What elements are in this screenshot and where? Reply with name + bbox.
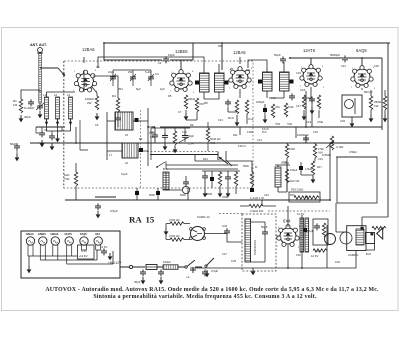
fuse <box>146 265 157 270</box>
svg-text:15: 15 <box>146 215 155 225</box>
resistor V3 screen <box>245 100 248 114</box>
resistor vibrator b 2700 <box>170 238 184 241</box>
capacitor 50pF left <box>14 143 20 150</box>
svg-text:C19: C19 <box>306 120 312 124</box>
svg-text:C18: C18 <box>313 130 318 134</box>
svg-text:10pF: 10pF <box>108 70 114 74</box>
resistor V5 cathode 250 <box>369 96 372 110</box>
cluster V4 resistor a <box>302 95 305 109</box>
wire top B+ bus y=43 <box>104 42 390 44</box>
driver coil <box>275 167 281 187</box>
wire V1 cathode <box>92 87 97 96</box>
svg-text:R11: R11 <box>233 133 238 137</box>
wire chassis line y=200 <box>65 199 330 201</box>
resistor 0,5M AF <box>285 144 288 158</box>
svg-text:47k: 47k <box>275 105 280 109</box>
tube V6 6X4 <box>277 225 299 247</box>
trimmer capacitor row c <box>148 74 154 81</box>
svg-text:500 pF: 500 pF <box>364 90 373 94</box>
svg-text:0,1μF: 0,1μF <box>121 172 128 176</box>
svg-text:C8: C8 <box>152 125 156 129</box>
scattered value labels <box>121 61 379 264</box>
svg-text:1W: 1W <box>374 104 379 108</box>
ground coils <box>55 135 60 142</box>
svg-text:C14: C14 <box>257 138 262 142</box>
wire grid drop x=104 <box>104 43 162 60</box>
wire trimmer row <box>113 70 151 86</box>
svg-text:0,25: 0,25 <box>231 259 237 263</box>
capacitor C1 <box>28 99 34 106</box>
AF cluster resistor a <box>218 172 221 186</box>
power transformer dashed box <box>242 214 276 271</box>
resistor dropping 2,5k horizontal <box>249 204 263 207</box>
wires output <box>330 203 388 268</box>
resistor screen V1 <box>116 98 119 112</box>
svg-text:40pF: 40pF <box>24 115 31 119</box>
hash filter coil above vibrator <box>163 172 169 190</box>
tube V5 6AQ5 <box>351 66 373 88</box>
svg-text:½W: ½W <box>318 150 323 154</box>
svg-text:ANT. AUT.: ANT. AUT. <box>30 43 47 47</box>
svg-text:B.A.: B.A. <box>163 167 169 171</box>
capacitor feed c 0,5uF <box>202 269 208 276</box>
svg-text:R5: R5 <box>168 94 172 98</box>
tube V4 12AT6 <box>300 65 322 87</box>
tube V3 12BA6 <box>229 67 251 89</box>
svg-text:5000pF: 5000pF <box>330 53 340 57</box>
svg-text:C4: C4 <box>158 61 162 65</box>
svg-text:8,2kΩ ½W: 8,2kΩ ½W <box>287 179 300 183</box>
svg-text:5000: 5000 <box>180 193 186 197</box>
wire heater pair y=151 <box>150 152 218 161</box>
svg-text:2W: 2W <box>87 101 92 105</box>
wire screen rail <box>381 58 383 130</box>
svg-text:+12,6V: +12,6V <box>79 254 88 258</box>
svg-text:C30: C30 <box>296 253 301 257</box>
svg-text:470k: 470k <box>318 147 324 151</box>
wire detector drop x=311 <box>310 58 312 66</box>
resistor 1k bias <box>74 172 77 186</box>
svg-text:1,5kΩ: 1,5kΩ <box>305 167 312 171</box>
svg-text:C19: C19 <box>318 157 323 161</box>
ground under R1 <box>19 115 24 122</box>
wire L3 drop <box>80 120 88 150</box>
ground AF cathode <box>311 176 316 183</box>
svg-text:5000: 5000 <box>243 164 249 168</box>
svg-text:R4: R4 <box>112 94 116 98</box>
band switch wires <box>157 161 238 169</box>
svg-text:0,01: 0,01 <box>222 224 228 228</box>
svg-text:A.O.: A.O. <box>271 96 276 100</box>
svg-text:12BE6: 12BE6 <box>38 232 46 236</box>
svg-text:12BA6: 12BA6 <box>50 232 59 236</box>
IF1 transformer box b <box>215 73 225 92</box>
wire screen V1 <box>93 76 118 127</box>
resistor diode load b <box>284 103 287 117</box>
drops to chassis line <box>137 188 188 200</box>
wire output grid drop <box>349 58 362 68</box>
heater wires <box>28 250 113 266</box>
tone unit box <box>313 219 328 245</box>
svg-text:R·: R· <box>255 165 258 169</box>
svg-text:12AT6: 12AT6 <box>303 48 316 53</box>
svg-text:C16: C16 <box>300 88 306 92</box>
svg-text:L1: L1 <box>43 93 47 97</box>
bottom return line <box>190 215 330 268</box>
svg-text:12,6V: 12,6V <box>311 254 318 258</box>
IF1 core squares <box>195 81 199 85</box>
switch battery <box>206 258 214 266</box>
IF2 core squares <box>258 80 262 84</box>
capacitor coupling 50pF V4 <box>280 56 286 63</box>
svg-text:0,5μF: 0,5μF <box>110 209 118 213</box>
dotted line right of dropping resistor <box>219 211 330 214</box>
core square L6 <box>139 148 143 152</box>
svg-text:10Ω: 10Ω <box>315 249 320 253</box>
grounds V5 <box>369 115 374 122</box>
wire antenna branch arrow <box>40 67 58 69</box>
wire top coupling line y=58 <box>289 57 382 59</box>
ground under antenna trimmer <box>38 111 43 118</box>
svg-text:12AT6: 12AT6 <box>64 232 72 236</box>
battery connector circle <box>129 265 132 268</box>
capacitor screen bypass V1 <box>115 115 121 122</box>
svg-text:50pF: 50pF <box>274 53 281 57</box>
AF cluster grounds <box>203 190 208 197</box>
choke LA <box>163 265 178 270</box>
output transformer <box>347 226 366 251</box>
coil L2 <box>56 97 60 125</box>
svg-text:10000pF: 10000pF <box>297 133 309 137</box>
power transformer winding <box>245 219 251 262</box>
capacitor feed b <box>158 269 164 276</box>
svg-text:100μF: 100μF <box>290 168 298 172</box>
resistor osc V2b <box>195 98 198 112</box>
wires AF output cluster <box>287 143 320 200</box>
svg-text:2700 kΩ: 2700 kΩ <box>169 218 180 222</box>
capacitor V3 bypass <box>225 99 231 106</box>
wire dashed band line <box>147 151 218 153</box>
heater lamp 1 <box>26 237 34 245</box>
svg-text:KARD-12: KARD-12 <box>197 215 210 219</box>
spark capacitors above vibrator <box>183 179 189 186</box>
resistor R17 <box>311 161 314 175</box>
resistor V3 cathode <box>235 100 238 114</box>
electrolytic output <box>303 228 307 232</box>
svg-text:5,6k: 5,6k <box>288 105 294 109</box>
long vertical connections <box>76 57 377 200</box>
ground bottom a <box>251 268 256 275</box>
capacitor 50pF det <box>289 93 295 100</box>
heater lamp 6 <box>94 237 102 245</box>
AF cluster capacitor a <box>202 173 208 180</box>
heater lamp 5 <box>80 237 88 245</box>
coil L1 <box>45 97 49 125</box>
wire grid drop x=222 <box>221 43 223 70</box>
svg-text:½W: ½W <box>210 141 215 145</box>
svg-text:L5: L5 <box>125 133 129 137</box>
wire osc coils <box>107 108 148 166</box>
svg-text:C11: C11 <box>246 68 251 72</box>
svg-text:4,7kΩ: 4,7kΩ <box>336 145 343 149</box>
potentiometer volume 0,5M <box>330 136 333 150</box>
svg-text:12BA6: 12BA6 <box>82 47 95 52</box>
svg-text:5000: 5000 <box>149 193 155 197</box>
svg-text:5μF: 5μF <box>136 87 141 91</box>
antenna trimmer capacitor 6-40pF <box>37 103 43 110</box>
svg-text:C13: C13 <box>218 118 223 122</box>
svg-text:+A: +A <box>186 275 190 279</box>
wire B+ bus y=143 <box>30 142 370 144</box>
svg-text:C4: C4 <box>155 72 159 76</box>
svg-text:C7: C7 <box>178 110 182 114</box>
svg-text:100μF: 100μF <box>163 260 171 264</box>
svg-text:R12: R12 <box>203 157 208 161</box>
svg-text:470k: 470k <box>222 195 229 199</box>
IF1 transformer box a <box>200 73 210 92</box>
IF2 transformer box b <box>280 72 290 91</box>
svg-text:1M: 1M <box>13 103 18 107</box>
resistor osc grid V2 <box>184 95 187 109</box>
svg-text:1,5÷7: 1,5÷7 <box>188 142 195 146</box>
vibrator circle <box>191 227 205 241</box>
resistor cathode V1 100k <box>95 96 98 110</box>
output unit outline box <box>337 157 377 203</box>
core square L5 <box>135 118 139 122</box>
capacitor 10000pF tone <box>303 135 309 142</box>
wire IF1 <box>98 57 219 99</box>
svg-text:140Ω: 140Ω <box>247 130 253 134</box>
trimmer capacitor row b <box>130 74 136 81</box>
svg-text:C20: C20 <box>340 119 346 123</box>
tube V2 12BE6 <box>170 70 192 92</box>
svg-text:2700 kΩ: 2700 kΩ <box>169 234 180 238</box>
svg-text:CAMPO: CAMPO <box>348 253 359 257</box>
heater cap 12,6V <box>101 248 107 255</box>
svg-text:140 Ω: 140 Ω <box>238 144 246 148</box>
svg-text:½W: ½W <box>287 122 292 126</box>
heater inner box <box>78 245 95 259</box>
dash-dot tuner shield enclosure <box>64 61 253 188</box>
svg-text:1μF: 1μF <box>160 87 165 91</box>
IF detector vertical wires <box>296 91 312 143</box>
ground bottom b <box>205 270 210 277</box>
resistor 470k AF <box>313 144 316 158</box>
svg-text:0,5M: 0,5M <box>289 147 295 151</box>
wire osc grid drop x=193 <box>170 43 193 71</box>
resistor R1 antenna <box>19 99 22 113</box>
svg-text:1,3 kΩ 1 W: 1,3 kΩ 1 W <box>250 196 264 200</box>
field choke <box>300 218 304 252</box>
heater lamp 3 <box>51 237 59 245</box>
ground output can <box>350 120 355 127</box>
svg-text:C21: C21 <box>341 64 346 68</box>
svg-text:12,6V: 12,6V <box>100 245 107 249</box>
svg-text:R18 2,5kΩ: R18 2,5kΩ <box>291 188 303 192</box>
output stage can <box>342 95 362 117</box>
ground cathode V1 <box>95 113 100 120</box>
svg-text:12BE6: 12BE6 <box>175 49 188 54</box>
svg-text:12BA6: 12BA6 <box>233 50 246 55</box>
coil L3 oscillator <box>69 97 73 125</box>
svg-text:C17: C17 <box>296 104 301 108</box>
IF2 transformer box a <box>263 72 273 91</box>
grounds V4 <box>302 113 307 120</box>
svg-text:10pF: 10pF <box>168 53 175 57</box>
AF cluster wires <box>202 171 240 194</box>
battery connector <box>190 267 196 273</box>
svg-text:½W: ½W <box>64 177 70 181</box>
arrow tuning pointer <box>219 157 228 164</box>
svg-text:C22: C22 <box>264 193 269 197</box>
svg-text:12BA6: 12BA6 <box>26 232 35 236</box>
grounds V3 <box>235 119 240 126</box>
svg-text:R9: R9 <box>190 123 194 127</box>
AF cluster capacitor b <box>225 174 231 181</box>
svg-text:½W: ½W <box>275 122 280 126</box>
svg-text:L2: L2 <box>54 93 58 97</box>
svg-text:C25: C25 <box>374 64 379 68</box>
wires 6X4 <box>276 206 288 268</box>
svg-text:C27: C27 <box>222 252 227 256</box>
cluster V4 resistor b <box>317 95 320 109</box>
svg-text:5000: 5000 <box>206 192 213 196</box>
speaker driver <box>366 233 375 244</box>
vibrator buffer capacitor <box>224 228 230 235</box>
svg-text:C3: C3 <box>44 128 48 132</box>
svg-text:C16: C16 <box>182 130 187 134</box>
driver resistor <box>285 169 288 183</box>
capacitor feed a <box>140 269 146 276</box>
svg-text:TRASFORM.: TRASFORM. <box>253 240 257 256</box>
padder capacitor cluster <box>162 133 168 140</box>
svg-text:254: 254 <box>118 87 123 91</box>
resistor V5 grid <box>383 96 386 110</box>
antenna shielded cable <box>39 53 42 103</box>
svg-text:6X4: 6X4 <box>95 232 100 236</box>
AF cluster electrolytic <box>210 177 214 181</box>
svg-text:6÷40pF: 6÷40pF <box>24 106 34 110</box>
dash-dot tuning core link line <box>63 61 65 188</box>
svg-text:R8: R8 <box>204 101 208 105</box>
voice coil resistor <box>372 226 386 229</box>
svg-text:AUTOVOX - Autoradio mod. Autov: AUTOVOX - Autoradio mod. Autovox RA15. O… <box>45 287 379 293</box>
svg-text:C6: C6 <box>95 123 99 127</box>
ground under V2 resistors <box>184 113 189 120</box>
svg-text:250: 250 <box>218 44 223 48</box>
speaker cone <box>377 228 383 239</box>
wire antenna to grid <box>21 90 75 99</box>
cluster V4 capacitor <box>309 96 315 103</box>
pin number specks <box>73 66 376 249</box>
switch I1 <box>185 266 187 268</box>
electrolytic AVC <box>263 108 267 112</box>
svg-text:R10: R10 <box>228 116 234 120</box>
second AF line <box>195 154 262 206</box>
svg-text:R17: R17 <box>317 165 322 169</box>
svg-text:R6: R6 <box>139 137 143 141</box>
padder capacitor <box>152 132 158 139</box>
svg-text:100pF: 100pF <box>256 100 265 104</box>
svg-text:6X4: 6X4 <box>283 219 291 224</box>
wirewound resistor box R18 <box>289 192 320 202</box>
wire right B+ rail <box>387 43 389 217</box>
svg-text:P.O.: P.O. <box>262 130 267 134</box>
svg-text:Sintonia a permeabilità variab: Sintonia a permeabilità variabile. Media… <box>93 294 317 300</box>
resistor AVC filter <box>206 128 209 142</box>
svg-text:45μF: 45μF <box>134 280 141 284</box>
resistor vibrator a 2700 <box>170 222 184 225</box>
capacitor coupling 5000pF V5 <box>342 55 348 62</box>
svg-text:5÷40: 5÷40 <box>145 70 151 74</box>
ground vibrator <box>164 228 169 235</box>
cluster below antenna coils <box>39 130 45 137</box>
svg-text:6AQ5: 6AQ5 <box>356 48 367 53</box>
heater lamp 2 <box>39 237 47 245</box>
svg-text:6AQ5: 6AQ5 <box>80 232 87 236</box>
svg-text:L6: L6 <box>125 161 129 165</box>
heater panel box <box>21 231 120 278</box>
svg-text:470k: 470k <box>317 120 324 124</box>
antenna connector <box>38 48 43 53</box>
svg-text:R15: R15 <box>290 193 295 197</box>
spark plate circle <box>325 234 336 245</box>
svg-text:C15: C15 <box>150 135 155 139</box>
svg-text:10Ω: 10Ω <box>335 260 340 264</box>
oscillator coil box L5 <box>115 112 133 130</box>
oscillator coil box L6 <box>122 143 138 158</box>
capacitor chassis 0,5uF <box>95 203 101 210</box>
svg-text:B.M.: B.M. <box>366 252 372 256</box>
trimmer capacitor row a <box>110 74 116 81</box>
svg-text:12,6V: 12,6V <box>297 212 304 216</box>
svg-text:50pF: 50pF <box>188 134 194 138</box>
wire coil bottoms <box>47 119 71 135</box>
resistor AF drop vertical <box>250 172 253 186</box>
electrolytic 100uF AF <box>299 166 303 170</box>
svg-text:140Ω: 140Ω <box>149 131 155 135</box>
svg-text:C2: C2 <box>96 65 100 69</box>
svg-text:7,5mA: 7,5mA <box>281 161 289 165</box>
svg-text:C15: C15 <box>296 71 301 75</box>
ground heater <box>27 266 32 273</box>
svg-text:50pF: 50pF <box>10 142 17 146</box>
svg-text:RA: RA <box>129 215 142 225</box>
capacitor 50uF in box <box>262 229 268 236</box>
junction dots <box>103 42 105 44</box>
svg-text:L3: L3 <box>67 93 71 97</box>
wire IF2 <box>248 60 284 98</box>
resistor diode load a <box>271 104 274 118</box>
svg-text:254: 254 <box>128 70 133 74</box>
svg-text:470kΩ: 470kΩ <box>349 150 357 154</box>
heater lamp 4 <box>65 237 73 245</box>
svg-text:22kΩ: 22kΩ <box>188 97 196 101</box>
svg-text:2,5kΩ 1W: 2,5kΩ 1W <box>250 209 263 213</box>
svg-text:0,5μF: 0,5μF <box>211 269 218 273</box>
svg-text:C12: C12 <box>248 117 254 121</box>
AF cluster resistor b <box>234 172 237 186</box>
tube V1 12BA6 <box>74 70 96 92</box>
trimmer capacitor 10pF <box>163 56 169 63</box>
resistor 12,6V tap <box>313 249 327 252</box>
svg-text:50μF: 50μF <box>261 225 268 229</box>
svg-text:+Bat.12V: +Bat.12V <box>108 261 122 265</box>
wire AVC bus y=127 <box>36 126 382 128</box>
